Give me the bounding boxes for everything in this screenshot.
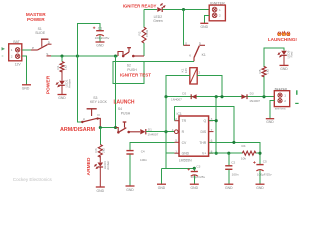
switch S2 push [118,48,151,78]
label LAUNCHING! with flames [268,31,298,42]
capacitor C2 [224,153,238,190]
svg-text:=: = [2,54,4,58]
svg-text:C5: C5 [263,160,267,164]
wire Q riser [209,97,216,154]
wire lower bus / S2 frame top [144,60,194,62]
wire V+ row [209,152,260,154]
wire C1 feed [77,24,100,56]
connector IGNITER [200,2,225,30]
svg-text:4: 4 [172,128,174,132]
svg-text:D2: D2 [182,92,186,96]
LED LED2 [144,4,165,23]
svg-text:100n: 100n [140,158,147,162]
connector BEEPER [266,87,290,124]
svg-text:Red: Red [289,51,293,57]
svg-text:P: P [32,46,34,50]
svg-text:GND: GND [266,120,274,124]
LED LED3 [278,50,293,71]
svg-text:Q: Q [204,119,207,123]
svg-text:GND: GND [191,186,199,190]
ground IC [161,168,163,184]
svg-text:C3: C3 [196,164,200,168]
node dot C1/S3 riser tap [76,54,79,57]
svg-text:see text: see text [275,106,286,110]
svg-text:100µF/25v: 100µF/25v [257,173,272,177]
resistor R4 [241,144,256,160]
wire GND pin1 route [166,152,175,154]
svg-text:LAUNCHING!: LAUNCHING! [268,37,298,42]
svg-text:R2: R2 [138,31,142,35]
wire BAT pin1 to S1 [22,49,31,51]
svg-text:Cockey Electronics: Cockey Electronics [13,177,53,182]
svg-text:6: 6 [189,54,191,58]
node C2 junction [227,152,230,155]
svg-text:LM555N: LM555N [179,159,192,163]
svg-text:LAUNCH: LAUNCH [113,99,134,105]
node coil-right junction [220,95,223,98]
svg-text:PUSH: PUSH [121,112,131,116]
wire THR row [209,142,260,164]
green edge marks right [296,90,298,95]
diode D3 [241,92,260,104]
svg-text:D1: D1 [148,127,152,131]
svg-text:GND: GND [280,67,288,71]
node igniter-pin1 / relay-S junction [182,8,185,11]
wire TR net vertical [165,97,167,169]
svg-text:ARMED: ARMED [86,157,92,175]
diode D2 [171,92,197,102]
svg-text:DIS: DIS [201,130,207,134]
svg-text:100n: 100n [232,173,239,177]
relay contact K1 [184,10,206,62]
svg-text:470R: 470R [145,29,149,37]
svg-text:THR: THR [199,141,207,145]
svg-text:S4: S4 [118,107,122,111]
IC1 LM555 [172,112,214,163]
svg-text:P: P [83,118,85,122]
resistor R5 [258,66,270,76]
svg-text:BAT: BAT [13,40,19,44]
node R5 junction [262,95,265,98]
svg-text:100µF/25v: 100µF/25v [190,175,205,179]
svg-text:D3: D3 [250,92,254,96]
svg-text:1k2: 1k2 [265,69,269,74]
svg-text:100µF/25v: 100µF/25v [95,36,110,40]
svg-text:ARM/DISARM: ARM/DISARM [60,127,96,133]
wire launching branch [264,48,284,97]
svg-text:R5: R5 [258,69,262,73]
node arm-row riser junction [114,126,117,129]
svg-text:1: 1 [284,94,286,98]
svg-text:R1: R1 [56,65,60,69]
wire BAT pin2 to GND [22,56,27,84]
node Q-riser junction [215,95,218,98]
wire ARM row [100,127,115,129]
svg-text:2: 2 [199,70,201,74]
svg-text:GND: GND [22,87,30,91]
svg-text:GND: GND [158,186,166,190]
svg-text:1N4007: 1N4007 [171,97,182,101]
svg-text:GND: GND [97,189,105,193]
svg-text:GND: GND [225,186,233,190]
node coil-left junction [164,95,167,98]
switch S3 key lock [81,96,108,128]
svg-text:SLIDE: SLIDE [35,31,46,35]
capacitor C5 [253,160,272,190]
svg-text:PUSH: PUSH [127,68,137,72]
switch S4 push [116,122,141,134]
svg-text:POWER: POWER [46,75,52,94]
svg-text:C4: C4 [141,149,145,153]
svg-text:Amber: Amber [106,161,110,170]
diode D1 [140,127,174,136]
svg-text:12V: 12V [15,62,22,66]
node V+ riser junction [215,152,218,155]
svg-text:GND: GND [126,188,134,192]
svg-text:S: S [46,52,48,56]
relay coil K1 [166,67,222,97]
svg-text:KEY LOCK: KEY LOCK [90,100,108,104]
svg-text:R4: R4 [242,144,246,148]
svg-text:Amber: Amber [68,79,72,88]
resistor R1 [56,56,67,72]
battery BAT [9,40,22,66]
svg-text:GND: GND [182,152,190,156]
svg-text:K1: K1 [202,53,206,57]
node C3 junction [193,167,196,170]
svg-text:C2: C2 [231,160,235,164]
svg-text:IGNITER TEST: IGNITER TEST [120,72,151,77]
ground under BAT [22,85,31,91]
svg-text:2: 2 [284,99,286,103]
capacitor C3 [188,164,206,190]
LED LED4 [95,156,110,193]
svg-text:10k: 10k [241,156,246,160]
svg-text:S2: S2 [127,63,131,67]
node Q pin junction [215,119,218,122]
wire riser to ARM row [77,56,81,122]
svg-text:Green: Green [153,19,163,23]
resistor R3 [94,128,106,158]
node THR junction [232,141,235,144]
svg-text:GND: GND [58,96,66,100]
svg-text:1N4007: 1N4007 [148,132,159,136]
node D1 junction [164,130,167,133]
svg-text:1: 1 [219,8,221,12]
svg-text:S: S [185,41,187,45]
node S3/R3 junction [99,126,102,129]
svg-text:POWER: POWER [27,17,45,22]
wire LED2 to igniter [162,9,209,11]
frame igniter test section [113,61,144,83]
svg-text:GND: GND [256,186,264,190]
svg-text:12V: 12V [184,67,188,73]
wire relay output row [167,96,275,98]
capacitor C1 [93,27,110,48]
svg-text:2k2: 2k2 [102,148,106,153]
wire S2 riser to LAUNCH row [115,56,117,128]
capacitor C4 [126,142,175,192]
svg-text:R3: R3 [94,148,98,152]
svg-text:CV: CV [182,141,187,145]
wire TR loop [175,107,234,143]
node R4/C5 junction [258,152,261,155]
svg-text:TR: TR [182,119,187,123]
svg-text:GND: GND [96,44,104,48]
LED LED1 [56,71,71,100]
svg-text:IGNITER READY: IGNITER READY [123,3,157,8]
node dot R1 tap [60,54,63,57]
svg-text:2: 2 [219,14,221,18]
resistor R2 [138,10,149,57]
node dot S2/launch riser tap [114,54,117,57]
svg-text:V+: V+ [202,152,206,156]
svg-text:1k2: 1k2 [63,65,67,70]
wire main bus [51,55,118,57]
svg-text:GND: GND [201,25,209,29]
svg-text:1: 1 [11,48,13,52]
svg-text:1N4007: 1N4007 [249,99,260,103]
svg-text:2: 2 [11,55,13,59]
